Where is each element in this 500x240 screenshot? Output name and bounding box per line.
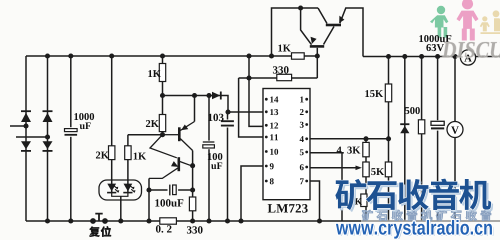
node C2 top bbox=[206, 93, 211, 98]
resistor R14 hidden 1K bbox=[361, 194, 367, 207]
wire node C to diode D5 to pin 13 bbox=[163, 96, 264, 113]
capacitor 103 bbox=[220, 120, 234, 128]
potentiometer R11 5K bbox=[363, 162, 369, 177]
wire Q2 base stub bbox=[316, 48, 318, 56]
wire Q4 emitter down bbox=[148, 178, 150, 221]
LED 2 bbox=[123, 184, 135, 193]
U1 pin numbers bbox=[265, 96, 308, 184]
wire zener column bbox=[404, 57, 406, 222]
resistor R10 4.3K bbox=[363, 142, 369, 156]
wire node B to 1K column bbox=[128, 134, 163, 136]
node rail top-left riser bbox=[269, 53, 274, 58]
diode D2 bridge upper right bbox=[43, 111, 53, 122]
IC U1 LM723 bbox=[263, 89, 310, 200]
node 330 branch bbox=[246, 75, 251, 80]
node gnd pin7 bbox=[317, 218, 322, 223]
watermark crystalradio big text bbox=[337, 181, 493, 212]
node rail R1 top bbox=[109, 53, 114, 58]
wire 103 cap column bbox=[227, 112, 229, 221]
node pin4 4.3K bbox=[363, 136, 368, 141]
node rail D2 top bbox=[45, 53, 50, 58]
node gnd Q4 emitter bbox=[146, 218, 151, 223]
resistor R5 330 (vertical) bbox=[189, 197, 195, 211]
voltmeter V1 bbox=[447, 122, 463, 138]
wire ground rail bbox=[26, 220, 500, 222]
wire LED 1K column bbox=[127, 135, 129, 193]
watermark DISCUZ text bbox=[442, 42, 500, 58]
label R4 2K bbox=[146, 120, 159, 127]
node top rail Q2 emitter bbox=[298, 5, 303, 10]
wire voltmeter column bbox=[454, 57, 456, 222]
node gnd D3 bbox=[45, 218, 50, 223]
node rail C4 top bbox=[435, 54, 440, 59]
node Q3 emitter riser bbox=[192, 93, 197, 98]
wire 100uF C2 column bbox=[208, 96, 210, 222]
label C2 100 uF bbox=[208, 153, 223, 169]
wire top rail left segment bbox=[272, 8, 319, 56]
R11 wiper arrow bbox=[356, 166, 362, 171]
node gnd C2 bbox=[206, 218, 211, 223]
watermark fade over ground rail bbox=[361, 220, 500, 223]
node pin4 15K bbox=[386, 136, 391, 141]
wire main left positive rail bbox=[26, 55, 317, 57]
transistor Q2 driver bbox=[310, 37, 324, 47]
label R9 15K bbox=[365, 90, 383, 97]
node gnd C1 bottom bbox=[68, 218, 73, 223]
wire 4.3K 5K column bbox=[365, 139, 367, 221]
resistor R7 330 (horizontal top) bbox=[277, 74, 292, 80]
wire output cap column bbox=[437, 57, 439, 222]
label R7 330 bbox=[273, 66, 289, 73]
wire LED cathode bracket bbox=[112, 193, 128, 197]
capacitor C1 1000uF bbox=[64, 127, 79, 137]
label 复位 bbox=[89, 226, 111, 236]
node rail 15K top bbox=[386, 54, 391, 59]
wire pin 4 row bbox=[310, 138, 389, 140]
wire 500 column bbox=[421, 57, 423, 222]
label C1 1000uF bbox=[74, 113, 94, 129]
node rail Q2 base bbox=[315, 53, 320, 58]
label R11 5K bbox=[371, 168, 384, 175]
label C3 100uF bbox=[155, 199, 183, 206]
wire Q3 collector column to ground bbox=[192, 151, 194, 222]
node rail D6 top bbox=[402, 54, 407, 59]
capacitor C4 output bbox=[430, 120, 446, 130]
capacitor C3 100uF (bottom) bbox=[168, 184, 179, 196]
resistor R4 2K (middle column) bbox=[159, 115, 165, 132]
node diode D5 out bbox=[225, 109, 230, 114]
node gnd 330 bbox=[190, 218, 195, 223]
wire pin 5 to ground bbox=[310, 153, 342, 221]
wire AC input stub 1 bbox=[10, 125, 26, 127]
wire LED 2K column bbox=[111, 56, 113, 193]
label R6 0.2 bbox=[156, 225, 172, 232]
label R2 1K bbox=[134, 153, 147, 160]
resistor R12 bbox=[385, 162, 391, 177]
diode D3 bridge lower left bbox=[21, 141, 31, 151]
label R3 1K bbox=[148, 70, 161, 77]
node AC input left bbox=[23, 123, 28, 128]
node 330 top bbox=[190, 187, 195, 192]
wire 100uF C3 row bbox=[149, 189, 193, 191]
label 103 bbox=[208, 114, 223, 121]
wire AC input stub 2 bbox=[16, 136, 48, 138]
label U1 LM723 bbox=[268, 204, 308, 213]
label R5 330 bbox=[187, 226, 203, 233]
resistor R13 500 bbox=[418, 120, 424, 134]
node rail C1 top bbox=[68, 53, 73, 58]
transistor Q4 lower PNP bbox=[149, 135, 193, 179]
resistor R3 1K (upper middle column) bbox=[159, 64, 165, 82]
wire filter cap column bbox=[70, 56, 72, 221]
diode D6 zener bbox=[400, 124, 409, 133]
wire middle divider column bbox=[162, 56, 164, 135]
label R13 500 bbox=[405, 107, 420, 114]
node gnd 103 bbox=[225, 218, 230, 223]
watermark echo row bbox=[362, 210, 491, 220]
resistor R2 1K (LED right) bbox=[125, 146, 131, 160]
ammeter A1 bbox=[460, 50, 475, 65]
wire Q2 emitter riser bbox=[301, 8, 312, 45]
node Q3-Q4 collectors bbox=[190, 163, 195, 168]
label C4 1000uF 63V bbox=[419, 35, 451, 51]
switch 复位 reset button bbox=[90, 214, 108, 224]
wire bridge right column bbox=[47, 56, 49, 221]
wire Q3 emitter vertical bbox=[194, 96, 196, 122]
diode D4 bridge lower right bbox=[43, 141, 53, 151]
node C R3-R4 bbox=[160, 93, 165, 98]
wire Q1 emitter to right rail bbox=[340, 8, 363, 57]
diode D5 (to pin 13) bbox=[212, 92, 221, 100]
wire Q1 collector bbox=[318, 8, 327, 24]
node gnd pin9 bbox=[238, 218, 243, 223]
wire bridge left column bbox=[25, 56, 27, 221]
resistor R1 2K (LED left) bbox=[109, 146, 115, 160]
transistor Q1 pass bbox=[326, 16, 345, 25]
diode D1 bridge upper left bbox=[21, 111, 31, 122]
wire to pin 11 bbox=[239, 78, 263, 137]
wire 330 left branch bbox=[239, 56, 318, 78]
resistor R9 15K bbox=[385, 84, 391, 102]
label R8 1K bbox=[278, 45, 291, 52]
resistor R6 0.2 (in ground rail) bbox=[160, 218, 177, 224]
node rail V1 top bbox=[452, 54, 457, 59]
node rail R13 top bbox=[419, 54, 424, 59]
node B divider bbox=[160, 132, 165, 137]
watermark discuz figures bbox=[430, 0, 500, 40]
wire Q2 collector to Q1 base bbox=[324, 27, 335, 45]
wire pin 9 to ground bbox=[241, 166, 263, 221]
wire right positive rail bbox=[363, 56, 500, 58]
transistor Q3 upper PNP bbox=[163, 122, 195, 151]
node rail pin12 feed bbox=[246, 53, 251, 58]
label R10 4.3K bbox=[337, 147, 361, 154]
LED indicator box bbox=[99, 180, 142, 200]
wire LED cathode drop bbox=[120, 196, 122, 221]
wire 15K column bbox=[388, 57, 390, 222]
node rail R3 top bbox=[160, 53, 165, 58]
wire pin 7 to ground bbox=[310, 181, 320, 221]
label R1 2K bbox=[96, 152, 109, 159]
label R14 1K bbox=[351, 198, 362, 204]
wire pin 6 to 5K wiper bbox=[310, 167, 357, 169]
node Q4 emitter bbox=[146, 187, 151, 192]
resistor R8 1K (in rail) bbox=[292, 53, 305, 59]
node AC input right bbox=[45, 134, 50, 139]
capacitor C2 100uF bbox=[202, 141, 215, 150]
wire rail to pin 12 bbox=[249, 56, 263, 126]
node gnd LED return bbox=[118, 218, 123, 223]
LED 1 bbox=[107, 184, 119, 193]
watermark www.crystalradio.cn bbox=[337, 221, 493, 240]
